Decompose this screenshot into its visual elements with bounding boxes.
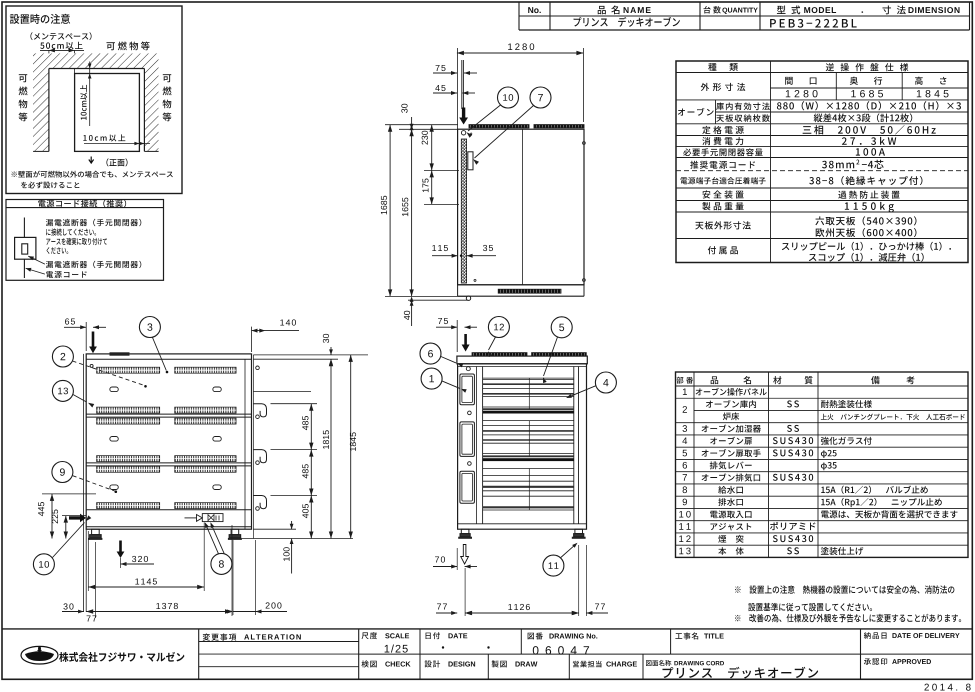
dim 485 rear lower	[310, 450, 312, 496]
dim 1845 rear	[350, 355, 352, 539]
dim 40 drain circle	[410, 296, 414, 302]
dim 1145 rear	[88, 586, 204, 588]
front bottom extension lines	[456, 548, 458, 570]
balloon 1 front	[421, 368, 442, 389]
rear view body outline	[86, 354, 251, 529]
rear view base band	[86, 509, 251, 511]
rear view top inner line	[86, 358, 251, 360]
front view power cord arrow	[462, 334, 470, 352]
rear view chimney black bar	[110, 352, 130, 355]
front view oven door section 3 slats	[483, 468, 574, 470]
side view power cord arrow	[459, 108, 468, 125]
spec row オーブン	[678, 108, 714, 116]
parts table row lines	[676, 397, 969, 399]
dim 1655 side	[411, 129, 413, 296]
dim 1378 rear	[86, 611, 232, 613]
dim 77 front left	[451, 611, 457, 615]
dim 30 side vertical	[385, 124, 458, 126]
side view bottom base band	[458, 284, 584, 286]
front view chimney hatched strips	[472, 353, 527, 356]
drawing name label	[646, 660, 671, 666]
rear view water inlet arrow (black right arrow)	[69, 514, 86, 523]
notice title	[10, 14, 70, 24]
rear view right edge lines	[244, 359, 246, 529]
front view hollow down arrow	[461, 545, 469, 565]
balloon 4 front	[595, 372, 616, 393]
rear view perforated vent strips	[97, 367, 160, 373]
title block top line	[2, 628, 972, 630]
dim 30 rear bottom	[78, 610, 84, 614]
title block row A verticals	[520, 629, 522, 654]
front view top plate	[457, 356, 587, 364]
company name text	[59, 652, 184, 662]
spec row 推奨電源コード	[690, 161, 755, 169]
spec table horizontal lines	[676, 72, 968, 74]
power box text	[46, 219, 141, 226]
dim 175 side	[424, 203, 459, 205]
spec row 付属品	[708, 246, 738, 254]
header label NAME	[598, 6, 606, 14]
dim 100 rear	[290, 524, 294, 530]
dim 40 drain extension	[408, 299, 468, 301]
front view panel circles	[468, 411, 472, 415]
front view control panel 3	[460, 471, 475, 503]
side view top plate hatched bar	[469, 125, 529, 128]
dim 1280 top	[457, 48, 459, 129]
company logo oval	[21, 646, 58, 664]
dim 140 rear	[251, 327, 253, 352]
spec row 消費電力	[702, 137, 743, 145]
spec table outer border	[676, 61, 968, 263]
balloon 5 front	[551, 317, 572, 338]
rear view top-left screw circle	[90, 364, 93, 367]
spec row 製品重量	[702, 202, 743, 210]
front view control panel 2	[460, 422, 475, 457]
model number PEB3-222BL	[770, 19, 857, 28]
rear bottom extension lines	[94, 542, 96, 618]
approved label	[864, 658, 887, 665]
spec row 天板収納枚数	[716, 114, 770, 122]
dim 200 rear bottom	[232, 540, 234, 615]
balloon 3 rear	[139, 317, 160, 338]
side view chimney duct hatched strip	[461, 139, 466, 283]
spec row 種類	[708, 63, 738, 71]
parts table vertical lines	[693, 372, 695, 557]
note line 2	[748, 603, 872, 611]
dim 405 rear	[310, 496, 312, 539]
front view deck divider band 2	[483, 458, 574, 461]
spec row 安全装置	[702, 190, 743, 198]
alteration label	[203, 633, 237, 640]
front view door middle joint line	[528, 378, 530, 409]
side view body outline	[458, 129, 584, 285]
wall hatch pattern region	[33, 53, 159, 151]
dim 1815 rear	[330, 359, 332, 538]
10cm vertical dimension	[89, 62, 91, 127]
side view screw circles	[461, 131, 465, 135]
installation notice box	[6, 6, 182, 194]
balloon 11 front	[543, 555, 564, 576]
balloon 6 front	[420, 343, 441, 364]
delivery date label	[864, 632, 887, 639]
rear view section divider 1	[86, 413, 251, 415]
oven footprint rect	[75, 74, 140, 152]
alteration rows	[199, 641, 359, 643]
dim 115 35 side	[432, 255, 457, 257]
dim 485 rear upper	[310, 404, 312, 450]
front view inner top line	[458, 366, 587, 368]
dim 77 rear bottom	[87, 615, 97, 621]
side view power cord lines	[461, 60, 463, 109]
rear right extension lines	[253, 354, 368, 356]
breaker label	[28, 256, 45, 264]
dim 75 front	[456, 320, 458, 352]
scale label	[362, 632, 378, 639]
date 2014.8	[924, 684, 970, 691]
power cord connection box	[6, 200, 164, 281]
side view floor extension	[385, 295, 467, 297]
combustibles label top	[106, 42, 149, 51]
header label MODEL DIMENSION	[777, 6, 786, 14]
front view exhaust lever knob (item 6)	[466, 367, 470, 371]
title block row B verticals	[487, 654, 489, 679]
combustibles label left	[19, 74, 27, 82]
breaker box symbol	[15, 237, 36, 259]
spec dims 1280 1685 1845	[786, 90, 818, 97]
spec row 必要手元開閉器容量	[683, 148, 762, 156]
rear view left duct double line	[83, 354, 85, 612]
dim 230 side	[424, 169, 459, 171]
notice footnote	[12, 171, 173, 178]
note line 1	[735, 585, 954, 593]
parts table rows	[683, 388, 687, 395]
combustibles label right	[163, 74, 171, 82]
power box title	[38, 200, 126, 208]
check label	[362, 660, 377, 667]
draw label	[492, 660, 507, 667]
dim 70 front	[451, 565, 457, 569]
product name prince deck oven	[574, 17, 680, 27]
dim 225 rear	[62, 515, 86, 517]
front view base band line	[458, 523, 587, 525]
header table No/NAME/QUANTITY/MODEL	[518, 2, 520, 30]
parts table headers	[677, 377, 694, 384]
breaker diagram wire	[23, 218, 25, 238]
front view deck divider band 1	[483, 411, 574, 414]
dim 1126 front	[465, 612, 579, 614]
title block mid horizontal	[359, 653, 973, 655]
parts table outer border	[676, 372, 969, 557]
front view legs	[461, 529, 469, 533]
balloon 10 rear	[33, 554, 54, 575]
dim 77 front right	[573, 611, 579, 615]
maintenance space label	[30, 32, 91, 40]
note line 3	[735, 614, 961, 623]
spec table vertical lines	[770, 61, 772, 263]
header label QUANTITY	[703, 6, 720, 13]
balloon 7 side view	[530, 87, 551, 108]
side view exhaust outlet rect (item 7)	[468, 152, 473, 170]
drawing number label	[528, 632, 543, 639]
dim 75 side	[451, 71, 457, 75]
spec row 天板外形寸法	[695, 221, 750, 229]
rear view 320 arrow marker	[117, 541, 125, 559]
dim 45 side	[451, 91, 457, 95]
front view body outline	[458, 364, 587, 529]
rear view section divider 2	[86, 462, 251, 464]
title block verticals	[198, 629, 200, 679]
balloon 12 front	[488, 317, 509, 338]
drawing name value	[662, 667, 818, 679]
rear view top power cord arrow	[89, 332, 97, 354]
design label	[425, 660, 441, 667]
spec row 外形寸法	[701, 83, 746, 91]
rear view handle ovals	[110, 387, 118, 392]
rear view damper pivot circles	[256, 366, 260, 370]
rear view legs	[92, 529, 100, 534]
date label	[426, 632, 440, 639]
front view oven door section 1 slats	[483, 377, 574, 379]
rear view drain valve assembly (item 8)	[185, 517, 197, 519]
rear view damper hooks	[253, 404, 266, 417]
10cm horizontal dimension	[83, 134, 125, 141]
side view bottom vent hatched strip	[498, 289, 561, 293]
50cm dimension	[40, 49, 84, 51]
dim 320 rear	[121, 562, 127, 566]
charge label	[573, 661, 602, 668]
front view control panel 1	[460, 374, 475, 405]
dim 1685 side	[389, 125, 391, 297]
front view control panel column line	[475, 367, 477, 524]
parts table header line	[676, 385, 969, 387]
front direction label	[89, 157, 94, 164]
balloon 8 rear	[211, 553, 232, 574]
balloon 9 rear	[52, 462, 73, 483]
room inner boundary	[48, 69, 50, 152]
spec row 電源端子台適合圧着端子	[681, 177, 766, 184]
side view drain circle	[466, 296, 470, 300]
title label	[675, 632, 698, 639]
company logo mark	[25, 651, 54, 661]
front view door frame columns	[482, 367, 484, 524]
spec row 定格電源	[702, 126, 744, 134]
power cord label	[26, 268, 45, 274]
front view oven door section 2 slats	[483, 420, 574, 422]
balloon 10 side view	[498, 87, 519, 108]
balloon 13 rear	[52, 380, 73, 401]
dim 445 rear	[42, 493, 96, 495]
dim 30 rear right	[329, 349, 333, 355]
side view panel joint line	[522, 129, 524, 285]
balloon 2 rear	[52, 346, 73, 367]
dim 65 rear	[85, 322, 87, 351]
header label No.	[528, 7, 541, 13]
